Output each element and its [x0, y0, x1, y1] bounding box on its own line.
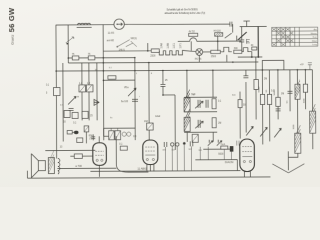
- svg-text:50000: 50000: [274, 89, 276, 96]
- svg-text:56 GW: 56 GW: [7, 7, 16, 32]
- resistor vert: [212, 99, 216, 109]
- right coil upper: [295, 84, 300, 99]
- cap circles: [122, 132, 126, 136]
- wire vertical x256: [255, 57, 257, 119]
- wire coil leads: [81, 63, 83, 85]
- right cap b: [287, 91, 292, 93]
- IF transformer block: [184, 70, 217, 142]
- wire vertical x135: [134, 58, 136, 140]
- svg-text:Ant: Ant: [314, 28, 317, 31]
- svg-text:11 AB61: 11 AB61: [137, 167, 147, 171]
- wire vertical x246: [245, 70, 247, 75]
- title Graetz 56GW: [7, 7, 16, 45]
- wire vertical x269: [268, 70, 270, 141]
- wire vertical x278: [277, 70, 279, 119]
- svg-text:2M: 2M: [218, 123, 221, 125]
- svg-text:7mA: 7mA: [220, 143, 225, 146]
- resistor R-heat: [151, 49, 159, 52]
- svg-text:VDa: VDa: [124, 87, 129, 89]
- trimmer arrows bottom right: [246, 127, 253, 136]
- ground arrow: [272, 151, 304, 173]
- svg-text:11Y1: 11Y1: [179, 42, 182, 48]
- svg-text:Graetz: Graetz: [11, 34, 15, 45]
- rail y70.5: [56, 70, 312, 71]
- hump: [220, 47, 232, 52]
- right resistors: [254, 79, 258, 89]
- switch S1: [117, 40, 137, 48]
- corner to node: [250, 52, 252, 57]
- resistor: [211, 50, 221, 53]
- trimmer 2: [206, 100, 208, 108]
- misc labels sprinkled: [60, 67, 237, 120]
- capacitor C-top: [230, 22, 232, 27]
- wire: [85, 132, 87, 143]
- bold drop 258: [257, 26, 259, 56]
- svg-text:12a2: 12a2: [155, 116, 161, 118]
- svg-text:ZnF: ZnF: [144, 121, 149, 123]
- antenna coil L1: [77, 23, 92, 27]
- IF coil 1: [184, 98, 190, 112]
- wire vertical x305: [304, 70, 306, 109]
- small box on 104: [108, 76, 116, 79]
- resistor above rail: [189, 33, 198, 36]
- cap right extra: [276, 109, 281, 111]
- tube V2: [143, 140, 158, 171]
- wire vertical x97: [96, 63, 98, 120]
- box below: [77, 138, 83, 143]
- svg-text:Mittel: Mittel: [312, 40, 317, 43]
- bottom component row: [164, 140, 222, 147]
- svg-text:W: W: [77, 96, 79, 98]
- wire top rail right: [124, 23, 229, 26]
- svg-text:6a 100: 6a 100: [121, 101, 129, 103]
- component on left x57: [53, 88, 60, 96]
- wire: [182, 50, 196, 51]
- svg-text:D/ACM: D/ACM: [225, 160, 233, 164]
- upper-right rail y41.5: [178, 36, 242, 52]
- svg-text:50000: 50000: [258, 86, 260, 93]
- cap mid: [132, 99, 138, 101]
- components above V1: [91, 134, 95, 140]
- switch arrow top-left: [66, 37, 74, 43]
- resistor right extra: [260, 94, 264, 104]
- heater rail left: [103, 50, 151, 52]
- tube labels vertical: [160, 42, 182, 48]
- svg-text:2500: 2500: [211, 56, 217, 58]
- switch arrow mid: [128, 88, 136, 96]
- svg-text:M2(1): M2(1): [131, 38, 137, 40]
- wire y57: [238, 56, 262, 58]
- svg-text:11C1: 11C1: [173, 42, 176, 48]
- wire top rail left: [56, 24, 114, 27]
- output transformer: [48, 151, 60, 175]
- rail y62.5: [68, 61, 258, 64]
- right of IF vertical: [239, 92, 241, 139]
- resistor R-a: [72, 56, 79, 60]
- capacitor C-E: [239, 27, 244, 52]
- switch diagonal: [225, 33, 232, 38]
- trimmer 3: [195, 120, 203, 129]
- wire: [203, 51, 211, 53]
- right cap a: [243, 76, 248, 78]
- svg-text:+U²: +U²: [300, 63, 304, 66]
- svg-text:11A8: 11A8: [160, 43, 163, 49]
- svg-text:HV100: HV100: [214, 31, 222, 33]
- svg-text:11 A/5: 11 A/5: [108, 32, 115, 35]
- tube V3: [240, 139, 255, 177]
- dial lamp: [196, 49, 203, 62]
- wire vertical x297: [296, 70, 298, 84]
- svg-text:abweichende Schaltung siehe Li: abweichende Schaltung siehe Liste (Ty): [165, 12, 206, 15]
- right edge coil: [310, 111, 316, 133]
- svg-text:Masse: Masse: [311, 33, 318, 35]
- band switch table: [272, 27, 318, 46]
- small box: [67, 130, 72, 134]
- bypass loop top right: [262, 60, 284, 70]
- hump2: [242, 48, 250, 52]
- table texts: [311, 28, 318, 46]
- table X marks: [272, 28, 293, 46]
- resistor near V1: [74, 154, 82, 159]
- switch lever bold: [238, 32, 247, 40]
- resistor rail y57.5: [68, 57, 134, 59]
- small box near 253: [252, 47, 257, 50]
- coil boxes small: [109, 131, 115, 140]
- node: [147, 50, 149, 52]
- paper background: [0, 0, 320, 187]
- svg-text:5000: 5000: [218, 154, 224, 156]
- extra coil: [192, 134, 198, 142]
- wire vertical x262: [261, 70, 263, 144]
- note text block: [165, 8, 206, 15]
- svg-text:2M: 2M: [264, 78, 267, 80]
- grid cap above V2: [147, 123, 154, 130]
- speaker: [31, 154, 45, 178]
- box left of V2: [120, 146, 127, 150]
- svg-text:2500: 2500: [150, 56, 156, 58]
- junction dots on rails: [55, 56, 306, 72]
- hatched box small: [84, 126, 89, 132]
- AF coupling cluster left of V2: [104, 127, 135, 129]
- wire vertical x56: [55, 25, 58, 150]
- wire y80: [103, 79, 134, 81]
- tube V1: [93, 136, 107, 177]
- resistor R-b: [88, 56, 95, 60]
- switch arrow left: [68, 96, 76, 104]
- svg-text:Schaltbild gilt ab Ger.Nr 5000: Schaltbild gilt ab Ger.Nr 50001: [167, 8, 199, 11]
- wire vertical x68: [67, 25, 69, 63]
- loop wire: [116, 136, 148, 172]
- wire y136 mid: [104, 135, 116, 137]
- diode: [94, 99, 99, 105]
- svg-text:Lang: Lang: [312, 44, 316, 46]
- bottom small boxes left: [64, 110, 70, 117]
- coil boxes: [79, 85, 93, 92]
- antenna stub: [243, 21, 249, 27]
- meter M1: [114, 19, 124, 29]
- svg-text:4V 52: 4V 52: [189, 32, 196, 34]
- ground E symbol: [247, 39, 250, 44]
- trimmer 1: [195, 100, 203, 109]
- IF coil 2: [184, 117, 190, 131]
- wire vertical x149: [148, 63, 150, 140]
- right coil lower: [295, 133, 301, 153]
- wire y27: [240, 25, 267, 27]
- svg-text:11B8: 11B8: [167, 42, 170, 48]
- wire vertical x290: [289, 70, 291, 111]
- wire vertical x63: [62, 63, 64, 141]
- filled bead capacitor: [74, 131, 79, 134]
- cap left: [69, 108, 74, 110]
- bottom rails: [90, 170, 240, 173]
- cap at 163: [160, 70, 175, 150]
- node drop at 233: [232, 24, 234, 32]
- svg-text:PO 46: PO 46: [195, 59, 202, 61]
- resistor 2: [234, 50, 242, 53]
- svg-text:a 700: a 700: [75, 164, 82, 168]
- svg-text:ant-M2: ant-M2: [107, 39, 115, 42]
- wire vertical x103: [102, 25, 105, 136]
- coil above rail: [215, 33, 223, 37]
- svg-text:1M: 1M: [281, 93, 284, 95]
- svg-text:Kurz: Kurz: [313, 37, 317, 39]
- heater humps: [159, 51, 182, 55]
